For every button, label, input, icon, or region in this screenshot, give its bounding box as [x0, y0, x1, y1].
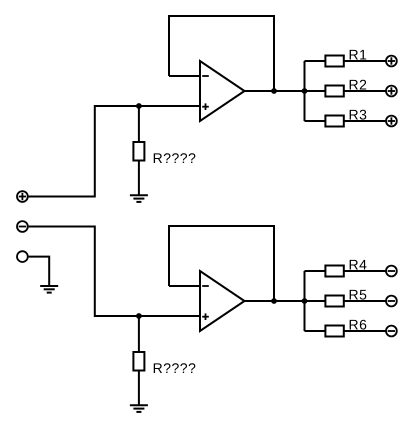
resistor R???? (bottom bias)	[133, 352, 144, 371]
wire: top bias resistor lower lead	[138, 161, 140, 196]
label R2	[350, 80, 367, 90]
terminal OUT3- (circle with minus)	[386, 326, 397, 337]
label R???? (bottom)	[154, 363, 196, 373]
label R5	[350, 290, 367, 300]
terminal OUT2+ (circle with plus)	[386, 86, 397, 97]
op-amp (top buffer)	[200, 61, 245, 121]
terminal GND reference (plain circle)	[17, 251, 28, 262]
wire: bottom op-amp inverting input	[169, 285, 200, 287]
wire: R5 branch	[305, 300, 326, 302]
wire: R2 to terminal	[344, 90, 386, 92]
resistor R3	[325, 116, 343, 127]
junction: bottom bias resistor node	[136, 313, 142, 319]
wire: R5 to terminal	[344, 300, 386, 302]
junction: bottom output / feedback	[271, 298, 277, 304]
label R3	[350, 110, 367, 120]
wire: R4 branch	[305, 270, 326, 272]
wire: R6 to terminal	[344, 330, 386, 332]
wire: bottom bias resistor lower lead	[138, 371, 140, 406]
label R4	[350, 260, 367, 270]
junction: bottom output branch	[302, 298, 308, 304]
wire: top bias resistor upper lead	[138, 106, 140, 142]
wire: bottom bias resistor upper lead	[138, 316, 140, 352]
junction: top output branch	[302, 88, 308, 94]
wire: ground terminal lead	[29, 257, 50, 286]
resistor R1	[325, 56, 343, 67]
wire: feedback loop of top op-amp	[169, 16, 274, 91]
wire: R3 to terminal	[344, 120, 386, 122]
terminal OUT1- (circle with minus)	[386, 266, 397, 277]
ground (input reference)	[40, 286, 58, 293]
wire: R4 to terminal	[344, 270, 386, 272]
wire: bottom op-amp output	[245, 300, 305, 302]
wire: top branch bus	[304, 61, 306, 121]
ground (bottom bias)	[130, 405, 148, 412]
terminal OUT3+ (circle with plus)	[386, 116, 397, 127]
resistor R6	[325, 326, 343, 337]
wire: R3 branch	[305, 120, 326, 122]
resistor R???? (top bias)	[133, 142, 144, 161]
wire: bottom branch bus	[304, 271, 306, 331]
wire: top op-amp output	[245, 90, 305, 92]
terminal IN- (circle with minus)	[17, 221, 28, 232]
label R1	[350, 50, 367, 60]
ground (top bias)	[130, 195, 148, 202]
op-amp (bottom buffer)	[200, 271, 245, 331]
wire: R1 to terminal	[344, 60, 386, 62]
wire: non-inverting input path from IN+ terminal	[29, 106, 200, 197]
resistor R4	[325, 266, 343, 277]
terminal IN+ (circle with plus)	[17, 191, 28, 202]
resistor R2	[325, 86, 343, 97]
wire: top op-amp inverting input	[169, 75, 200, 77]
wire: feedback loop of bottom op-amp	[169, 226, 274, 301]
label R6	[350, 320, 367, 330]
wire: R1 branch	[305, 60, 326, 62]
label R???? (top)	[154, 153, 196, 163]
wire: R6 branch	[305, 330, 326, 332]
terminal OUT2- (circle with minus)	[386, 296, 397, 307]
junction: top bias resistor node	[136, 103, 142, 109]
junction: top output / feedback	[271, 88, 277, 94]
wire: R2 branch	[305, 90, 326, 92]
wire: non-inverting input path from IN- terminal	[29, 227, 200, 317]
terminal OUT1+ (circle with plus)	[386, 56, 397, 67]
resistor R5	[325, 296, 343, 307]
